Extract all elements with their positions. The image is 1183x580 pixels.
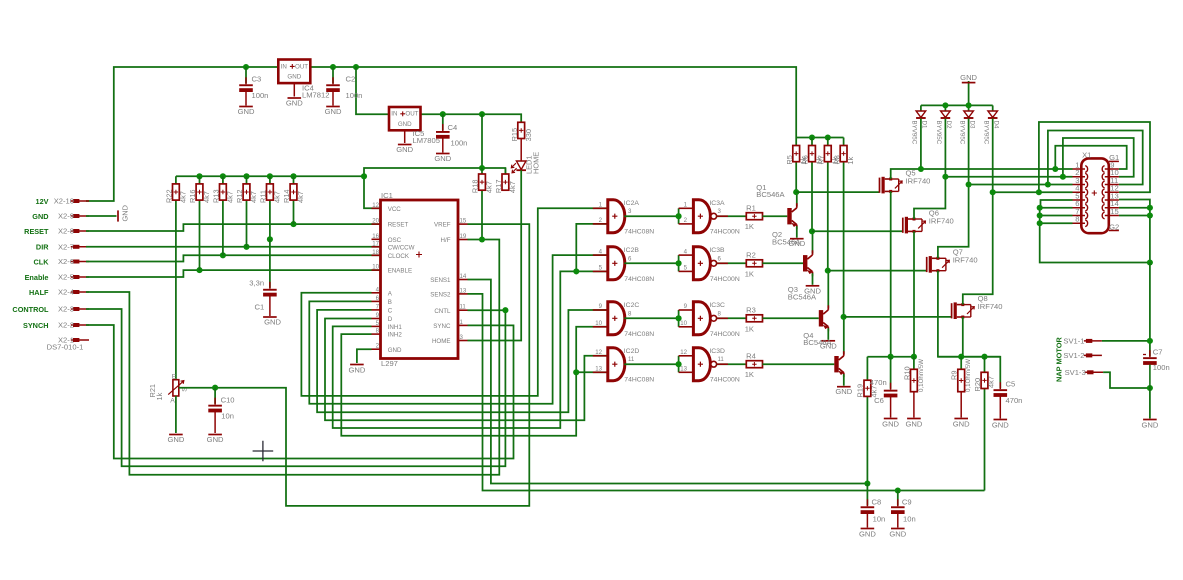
resistor R18 4k7 bbox=[481, 168, 483, 240]
svg-text:10n: 10n bbox=[903, 515, 916, 524]
svg-text:X2-3: X2-3 bbox=[58, 305, 74, 314]
svg-text:C1: C1 bbox=[255, 303, 265, 312]
wire phase D net IC1-D to IC2D pin12 bbox=[325, 319, 608, 421]
svg-text:CNTL: CNTL bbox=[434, 308, 451, 315]
svg-text:GND: GND bbox=[960, 73, 977, 82]
node IC3D input tie bbox=[676, 361, 682, 367]
wire Q5 gate line bbox=[796, 191, 879, 193]
IC1 pin 13 SENS2 bbox=[458, 293, 468, 295]
svg-text:R2: R2 bbox=[746, 251, 756, 260]
node Q8 source / R9 bbox=[958, 354, 964, 360]
svg-text:C8: C8 bbox=[872, 498, 882, 507]
svg-text:IC2D: IC2D bbox=[624, 348, 640, 355]
svg-text:GND: GND bbox=[882, 420, 899, 429]
and-gate IC2D 74HC08N bbox=[608, 348, 625, 381]
ground below Q2 bbox=[806, 285, 820, 287]
svg-text:X2-5: X2-5 bbox=[58, 273, 74, 282]
svg-text:470n: 470n bbox=[1006, 396, 1023, 405]
node C3 rail junction bbox=[243, 64, 249, 70]
wire IC3 output to R4 bbox=[716, 363, 746, 365]
svg-text:GND: GND bbox=[325, 107, 342, 116]
svg-text:R15: R15 bbox=[510, 128, 519, 142]
svg-text:VREF: VREF bbox=[434, 222, 451, 229]
ground below C5 bbox=[994, 419, 1008, 421]
ground below C2 bbox=[326, 106, 340, 108]
capacitor C9 10n bbox=[897, 491, 899, 507]
node Q6 gate junction bbox=[809, 228, 815, 234]
wire 5V drop to VCC distribution bbox=[364, 114, 482, 176]
wire SENS1 net IC1 pin14 to R19/C8 bbox=[468, 280, 868, 484]
svg-text:4k7: 4k7 bbox=[179, 191, 188, 203]
ground below C8 bbox=[861, 528, 875, 530]
capacitor C7 100n bbox=[1143, 356, 1157, 365]
wire motor common down to SV1 and C7 bbox=[1149, 263, 1151, 358]
ground below IC4 bbox=[288, 97, 302, 99]
svg-text:GND: GND bbox=[348, 366, 365, 375]
svg-text:DS7-010-1: DS7-010-1 bbox=[47, 343, 84, 352]
X1 pin 8 bbox=[1073, 222, 1086, 224]
node R11 top bbox=[267, 173, 273, 179]
svg-text:R16: R16 bbox=[188, 189, 197, 203]
X1 pin 15 bbox=[1105, 215, 1119, 217]
IC1 pin 12 VCC bbox=[372, 207, 381, 209]
wire Q5 drain to phase line 1 bbox=[891, 169, 1073, 179]
svg-text:74HC08N: 74HC08N bbox=[624, 229, 654, 236]
transistor Q3 BC546A bbox=[819, 310, 823, 326]
wire Q2 emitter to ground bbox=[812, 273, 814, 285]
svg-text:IC3B: IC3B bbox=[709, 247, 725, 254]
wire R4 to Q4 base bbox=[762, 363, 834, 365]
X1 pin 2 bbox=[1073, 176, 1086, 178]
node C2 rail junction bbox=[330, 64, 336, 70]
svg-text:R19: R19 bbox=[855, 384, 864, 398]
svg-text:X2-9: X2-9 bbox=[58, 212, 74, 221]
svg-text:R4: R4 bbox=[746, 352, 756, 361]
svg-text:10: 10 bbox=[680, 320, 687, 327]
svg-text:IN: IN bbox=[281, 63, 287, 70]
svg-text:3,3n: 3,3n bbox=[249, 279, 264, 288]
IC1 pin 17 CW/CCW bbox=[372, 246, 381, 248]
svg-text:SYNCH: SYNCH bbox=[23, 321, 49, 330]
nand-gate IC3A 74HC00N bbox=[693, 200, 710, 233]
transistor Q5 IRF740 MOSFET bbox=[879, 178, 881, 193]
sheet origin cross bbox=[253, 441, 274, 462]
svg-text:100n: 100n bbox=[346, 91, 363, 100]
resistor R20 4k7 bbox=[984, 357, 986, 491]
svg-text:G1: G1 bbox=[1109, 153, 1119, 162]
ground above diodes bbox=[968, 81, 970, 105]
svg-text:C5: C5 bbox=[1006, 380, 1016, 389]
diode D3 BYV95C bbox=[968, 105, 970, 111]
svg-text:D1: D1 bbox=[921, 121, 928, 129]
capacitor C2 bbox=[332, 67, 334, 84]
svg-text:R3: R3 bbox=[746, 306, 756, 315]
connector pin X2-3 bbox=[73, 307, 79, 311]
svg-text:C9: C9 bbox=[902, 498, 912, 507]
node phase1/pin9 tie bbox=[1052, 166, 1058, 172]
node SV1-1 junction bbox=[1147, 338, 1153, 344]
svg-text:OSC: OSC bbox=[388, 237, 402, 244]
svg-text:R10: R10 bbox=[902, 366, 911, 380]
node R20 top bbox=[981, 354, 987, 360]
node R12 bottom on DIR bbox=[243, 244, 249, 250]
svg-text:1K: 1K bbox=[745, 370, 754, 379]
wire X1 pin11 wrap to phase line 3 bbox=[1048, 131, 1143, 185]
node phase2/pin10 tie bbox=[1060, 174, 1066, 180]
X1 pin 7 bbox=[1073, 215, 1086, 217]
connector pin X2-6 bbox=[73, 260, 79, 264]
svg-text:X2-10: X2-10 bbox=[54, 197, 74, 206]
connector pin SV1-2 bbox=[1086, 353, 1092, 357]
wire IC3 output to R3 bbox=[716, 317, 746, 319]
wire IC2B output to IC3B inputs bbox=[624, 262, 678, 264]
svg-text:14: 14 bbox=[460, 273, 467, 280]
node Q5 gate junction bbox=[793, 189, 799, 195]
svg-text:11: 11 bbox=[628, 356, 635, 363]
resistor R11 4k7 bbox=[269, 176, 271, 239]
X1 pin 12 bbox=[1105, 191, 1119, 193]
wire Q1 emitter to ground bbox=[796, 226, 798, 238]
ground below Q4 bbox=[837, 386, 851, 388]
wire phase C net IC1-C to IC2C pin9 bbox=[317, 310, 608, 412]
diode D1 BYV95C bbox=[920, 105, 922, 111]
X1 pin 5 bbox=[1073, 199, 1086, 201]
IC1 pin 19 H/F bbox=[458, 239, 468, 241]
wire SV1-1 to common bbox=[1102, 340, 1150, 342]
svg-text:13: 13 bbox=[680, 366, 687, 373]
connector pin X2-7 bbox=[73, 245, 79, 249]
resistor R15 330 bbox=[518, 122, 525, 138]
svg-text:1k: 1k bbox=[846, 156, 855, 164]
svg-text:GND: GND bbox=[238, 107, 255, 116]
wire R2 to Q2 base bbox=[762, 262, 803, 264]
svg-text:CLK: CLK bbox=[34, 257, 50, 266]
IC1 pin 2 GND bbox=[372, 348, 381, 350]
svg-text:NAP MOTOR: NAP MOTOR bbox=[1055, 336, 1064, 382]
resistor R2 1K bbox=[746, 260, 762, 267]
node phase C / D3 bbox=[966, 181, 972, 187]
svg-text:IN: IN bbox=[391, 111, 397, 118]
svg-text:GND: GND bbox=[264, 318, 281, 327]
svg-text:B: B bbox=[388, 299, 392, 306]
X1 pin 1 bbox=[1073, 168, 1086, 170]
wire 5V output of IC5 to R15 bbox=[421, 114, 522, 122]
wire phase A net IC1-A to IC2A pin1 bbox=[301, 208, 607, 396]
wire Q1 collector to gate line bbox=[796, 192, 798, 206]
wire phase B net IC1-B to IC2B pin4 bbox=[309, 255, 608, 404]
ground below C10 bbox=[208, 434, 222, 436]
X1 pin 6 bbox=[1073, 207, 1086, 209]
svg-text:BYV95C: BYV95C bbox=[911, 121, 918, 145]
svg-text:R13: R13 bbox=[212, 189, 221, 203]
svg-text:12: 12 bbox=[372, 202, 379, 209]
diode D4 BYV95C bbox=[992, 105, 994, 111]
svg-text:GND: GND bbox=[905, 420, 922, 429]
svg-text:74HC08N: 74HC08N bbox=[624, 377, 654, 384]
X1 pin 10 bbox=[1105, 176, 1119, 178]
node R17/CNTL junction bbox=[502, 307, 508, 313]
ground below C6 bbox=[884, 418, 898, 420]
svg-text:4k7: 4k7 bbox=[296, 191, 305, 203]
svg-text:R8: R8 bbox=[832, 155, 841, 164]
wire Q3 collector to gate line bbox=[827, 271, 829, 309]
svg-text:18: 18 bbox=[372, 249, 379, 256]
svg-text:BYV95C: BYV95C bbox=[983, 121, 990, 145]
IC1 pin 1 SYNC bbox=[458, 324, 468, 326]
svg-text:12: 12 bbox=[595, 349, 602, 356]
resistor R4 1K bbox=[746, 361, 762, 368]
svg-text:IC2C: IC2C bbox=[624, 302, 640, 309]
IC1 pin 18 CLOCK bbox=[372, 254, 381, 256]
wire X1 pin12 wrap to phase line 4 bbox=[1039, 122, 1150, 192]
resistor R7 1k bbox=[827, 138, 829, 146]
capacitor C1 3.3n bbox=[263, 288, 277, 297]
wire RESET net X2-8 to IC1 pin 20 bbox=[86, 224, 381, 231]
connector pin X2-8 bbox=[73, 229, 79, 233]
capacitor C6 470n bbox=[890, 357, 892, 390]
resistor R14 4k7 bbox=[293, 176, 295, 224]
svg-text:GND: GND bbox=[992, 421, 1009, 430]
svg-text:LM7812: LM7812 bbox=[302, 91, 329, 100]
IC1 pin 11 CNTL bbox=[458, 309, 468, 311]
svg-text:15: 15 bbox=[460, 218, 467, 225]
X1 pin 11 bbox=[1105, 184, 1119, 186]
ground below R10 bbox=[907, 418, 921, 420]
node 5V drop junction bbox=[479, 111, 485, 117]
ground below C9 bbox=[891, 528, 905, 530]
svg-text:IC3C: IC3C bbox=[709, 302, 725, 309]
IC1 pin 7 C bbox=[372, 309, 381, 311]
svg-text:G2: G2 bbox=[1109, 222, 1119, 231]
svg-text:CW/CCW: CW/CCW bbox=[388, 244, 415, 251]
node phase B / D2 bbox=[942, 174, 948, 180]
svg-text:LM7805: LM7805 bbox=[413, 136, 440, 145]
node Q6 source / R10 bbox=[911, 354, 917, 360]
svg-text:4k7: 4k7 bbox=[273, 191, 282, 203]
ground below C4 bbox=[436, 153, 450, 155]
svg-text:10n: 10n bbox=[873, 515, 886, 524]
wire IC3 output to R1 bbox=[716, 215, 746, 217]
node Q5 source / C6 bbox=[888, 354, 894, 360]
node D2 rail bbox=[942, 102, 948, 108]
wire Q8 source to sense rail B bbox=[962, 317, 964, 357]
svg-text:IC2A: IC2A bbox=[624, 200, 640, 207]
wire X1 pins 6,7,8 common down to bottom rail bbox=[1040, 207, 1073, 209]
node R16 top bbox=[196, 173, 202, 179]
wire IC2D output to IC3D inputs bbox=[624, 363, 678, 365]
X1 pin 9 bbox=[1105, 168, 1119, 170]
svg-text:C6: C6 bbox=[874, 396, 884, 405]
svg-text:R17: R17 bbox=[494, 180, 503, 194]
resistor R22 4k7 bbox=[175, 176, 177, 379]
wire 5V rail over pull-up resistors to IC1 VCC bbox=[176, 176, 381, 208]
svg-text:D3: D3 bbox=[968, 121, 975, 129]
op-amp IC1 L297 stepper controller bbox=[381, 200, 459, 359]
svg-text:100n: 100n bbox=[1153, 363, 1170, 372]
svg-text:4k7: 4k7 bbox=[485, 181, 494, 193]
svg-text:11: 11 bbox=[460, 304, 467, 311]
connector pin X2-10 bbox=[73, 199, 79, 203]
svg-text:C4: C4 bbox=[448, 123, 458, 132]
svg-text:R14: R14 bbox=[282, 189, 291, 203]
node R6 top bbox=[809, 134, 815, 140]
connector pin X2-4 bbox=[73, 290, 79, 294]
node C9 junction bbox=[895, 487, 901, 493]
svg-text:4k7: 4k7 bbox=[249, 191, 258, 203]
svg-text:CONTROL: CONTROL bbox=[12, 305, 49, 314]
svg-text:OUT: OUT bbox=[405, 111, 418, 118]
IC1 pin 15 VREF bbox=[458, 223, 468, 225]
wire INH1 net to IC2A pin2 / IC2B pin5 bbox=[333, 271, 608, 428]
node phase A / D1 bbox=[918, 166, 924, 172]
voltage regulator IC5 LM7805 bbox=[389, 107, 421, 130]
wire Q8 gate line bbox=[844, 316, 952, 318]
node INH2 junction bbox=[573, 369, 579, 375]
svg-text:INH1: INH1 bbox=[388, 324, 403, 331]
svg-text:GND: GND bbox=[434, 154, 451, 163]
transistor Q1 BC546A bbox=[787, 208, 791, 224]
node C10 junction bbox=[212, 385, 218, 391]
resistor R6 1k bbox=[811, 138, 813, 146]
svg-text:4k7: 4k7 bbox=[202, 191, 211, 203]
svg-text:17: 17 bbox=[372, 240, 379, 247]
svg-text:GND: GND bbox=[287, 74, 301, 81]
svg-text:12: 12 bbox=[680, 349, 687, 356]
connector pin SV1-3 bbox=[1087, 370, 1093, 374]
svg-text:13: 13 bbox=[595, 366, 602, 373]
wire Enable net X2-5 to IC1 ENABLE bbox=[86, 270, 381, 277]
nand-gate IC3C 74HC00N bbox=[693, 302, 710, 335]
svg-text:8: 8 bbox=[1075, 215, 1079, 224]
X1 pin 4 bbox=[1073, 191, 1086, 193]
svg-text:20: 20 bbox=[372, 218, 379, 225]
node R13 bottom on CLK bbox=[220, 252, 226, 258]
node bottom rail corner bbox=[1147, 259, 1153, 265]
svg-text:BYV95C: BYV95C bbox=[958, 121, 965, 145]
node R18 bottom on H/F bbox=[479, 236, 485, 242]
svg-text:4k7: 4k7 bbox=[508, 181, 517, 193]
svg-text:16: 16 bbox=[372, 233, 379, 240]
svg-text:X2-6: X2-6 bbox=[58, 257, 74, 266]
svg-text:1K: 1K bbox=[745, 222, 754, 231]
node pin14 tie bbox=[1147, 205, 1153, 211]
svg-text:OUT: OUT bbox=[295, 63, 308, 70]
ground below R21 bbox=[169, 434, 183, 436]
wire X1 pin9 wrap to phase line 1 bbox=[1055, 146, 1126, 169]
svg-text:X2-4: X2-4 bbox=[58, 288, 74, 297]
wire Q4 collector to gate line bbox=[843, 317, 845, 354]
svg-text:IRF740: IRF740 bbox=[953, 256, 978, 265]
svg-text:IC1: IC1 bbox=[381, 191, 393, 200]
wire IC1 GND pin to ground bbox=[357, 349, 372, 363]
transistor Q8 IRF740 MOSFET bbox=[951, 303, 953, 318]
node R13 top bbox=[220, 173, 226, 179]
svg-text:1K: 1K bbox=[745, 269, 754, 278]
resistor R1 1K bbox=[746, 213, 762, 220]
svg-text:74HC08N: 74HC08N bbox=[624, 276, 654, 283]
svg-text:RESET: RESET bbox=[388, 222, 409, 229]
wire LED1 cathode to HOME pin bbox=[468, 170, 522, 340]
X1 pin 13 bbox=[1105, 199, 1119, 201]
svg-text:0,1Ohm/5W: 0,1Ohm/5W bbox=[918, 359, 925, 392]
svg-text:Enable: Enable bbox=[25, 273, 49, 282]
svg-text:4k7: 4k7 bbox=[226, 191, 235, 203]
IC1 pin 4 A bbox=[372, 292, 381, 294]
resistor R8 1k bbox=[843, 138, 845, 146]
svg-text:1K: 1K bbox=[745, 324, 754, 333]
svg-text:C7: C7 bbox=[1153, 348, 1163, 357]
connector pin X2-5 bbox=[73, 275, 79, 279]
ground below IC1 bbox=[350, 364, 364, 366]
node pin7 tie bbox=[1037, 212, 1043, 218]
svg-text:R20: R20 bbox=[973, 378, 982, 392]
wire 12V branch down to IC5 input bbox=[356, 67, 389, 114]
svg-text:IC3A: IC3A bbox=[709, 200, 725, 207]
svg-text:GND: GND bbox=[207, 435, 224, 444]
X1 shield pin G2 bbox=[1109, 230, 1119, 232]
resistor R17 4k7 bbox=[504, 168, 506, 190]
svg-text:X2-8: X2-8 bbox=[58, 227, 74, 236]
node IC3B input tie bbox=[676, 260, 682, 266]
LED1 HOME indicator bbox=[520, 139, 522, 162]
node R16 bottom on Enable bbox=[196, 267, 202, 273]
resistor R9 0.1 Ohm bbox=[960, 357, 962, 370]
connector pin X2-9 bbox=[73, 214, 79, 218]
transistor Q4 BC546A bbox=[834, 356, 838, 372]
node R14 bottom on RESET bbox=[290, 221, 296, 227]
wire CNTL stub bbox=[468, 309, 506, 311]
ground below Q3 bbox=[822, 340, 836, 342]
ground below Q1 bbox=[790, 238, 804, 240]
nand-gate IC3B 74HC00N bbox=[693, 247, 710, 280]
wire sense rail A bbox=[867, 356, 914, 358]
transistor Q2 BC546A bbox=[803, 255, 807, 271]
wire X1 pins 13,14,15 common bbox=[1119, 200, 1150, 263]
svg-text:74HC08N: 74HC08N bbox=[624, 331, 654, 338]
svg-text:GND: GND bbox=[286, 99, 303, 108]
wire Q8 drain jog to phase line 4 bbox=[963, 192, 1073, 304]
wire Q7 gate line bbox=[828, 270, 927, 272]
capacitor C5 470n bbox=[994, 388, 1008, 397]
node R12 top bbox=[243, 173, 249, 179]
ground below R9 bbox=[954, 418, 968, 420]
wire Q7 drain jog to phase line 3 bbox=[938, 185, 1073, 259]
svg-text:100n: 100n bbox=[252, 91, 269, 100]
node INH1 junction bbox=[573, 268, 579, 274]
svg-text:R22: R22 bbox=[165, 189, 174, 203]
wire X1 pin5 to common bbox=[1041, 200, 1073, 208]
svg-text:R11: R11 bbox=[259, 190, 268, 203]
IC1 pin 16 OSC bbox=[372, 238, 381, 240]
svg-text:IRF740: IRF740 bbox=[906, 176, 931, 185]
wire Q4 emitter to ground bbox=[843, 374, 845, 386]
capacitor C8 10n bbox=[866, 484, 868, 507]
wire diode common rail bbox=[921, 104, 993, 106]
node IC3C input tie bbox=[676, 315, 682, 321]
transistor Q6 IRF740 MOSFET bbox=[902, 218, 904, 233]
IC1 pin 8 INH2 bbox=[372, 333, 381, 335]
svg-text:INH2: INH2 bbox=[388, 332, 403, 339]
svg-text:SV1-3: SV1-3 bbox=[1065, 368, 1086, 377]
svg-text:D4: D4 bbox=[993, 121, 1000, 129]
node R18 top junction bbox=[479, 165, 485, 171]
node pin8 tie bbox=[1037, 220, 1043, 226]
svg-text:D: D bbox=[388, 316, 393, 323]
svg-text:GND: GND bbox=[859, 530, 876, 539]
capacitor C10 10n bbox=[214, 388, 216, 405]
svg-text:C3: C3 bbox=[252, 75, 262, 84]
wire R1 to Q1 base bbox=[762, 215, 787, 217]
